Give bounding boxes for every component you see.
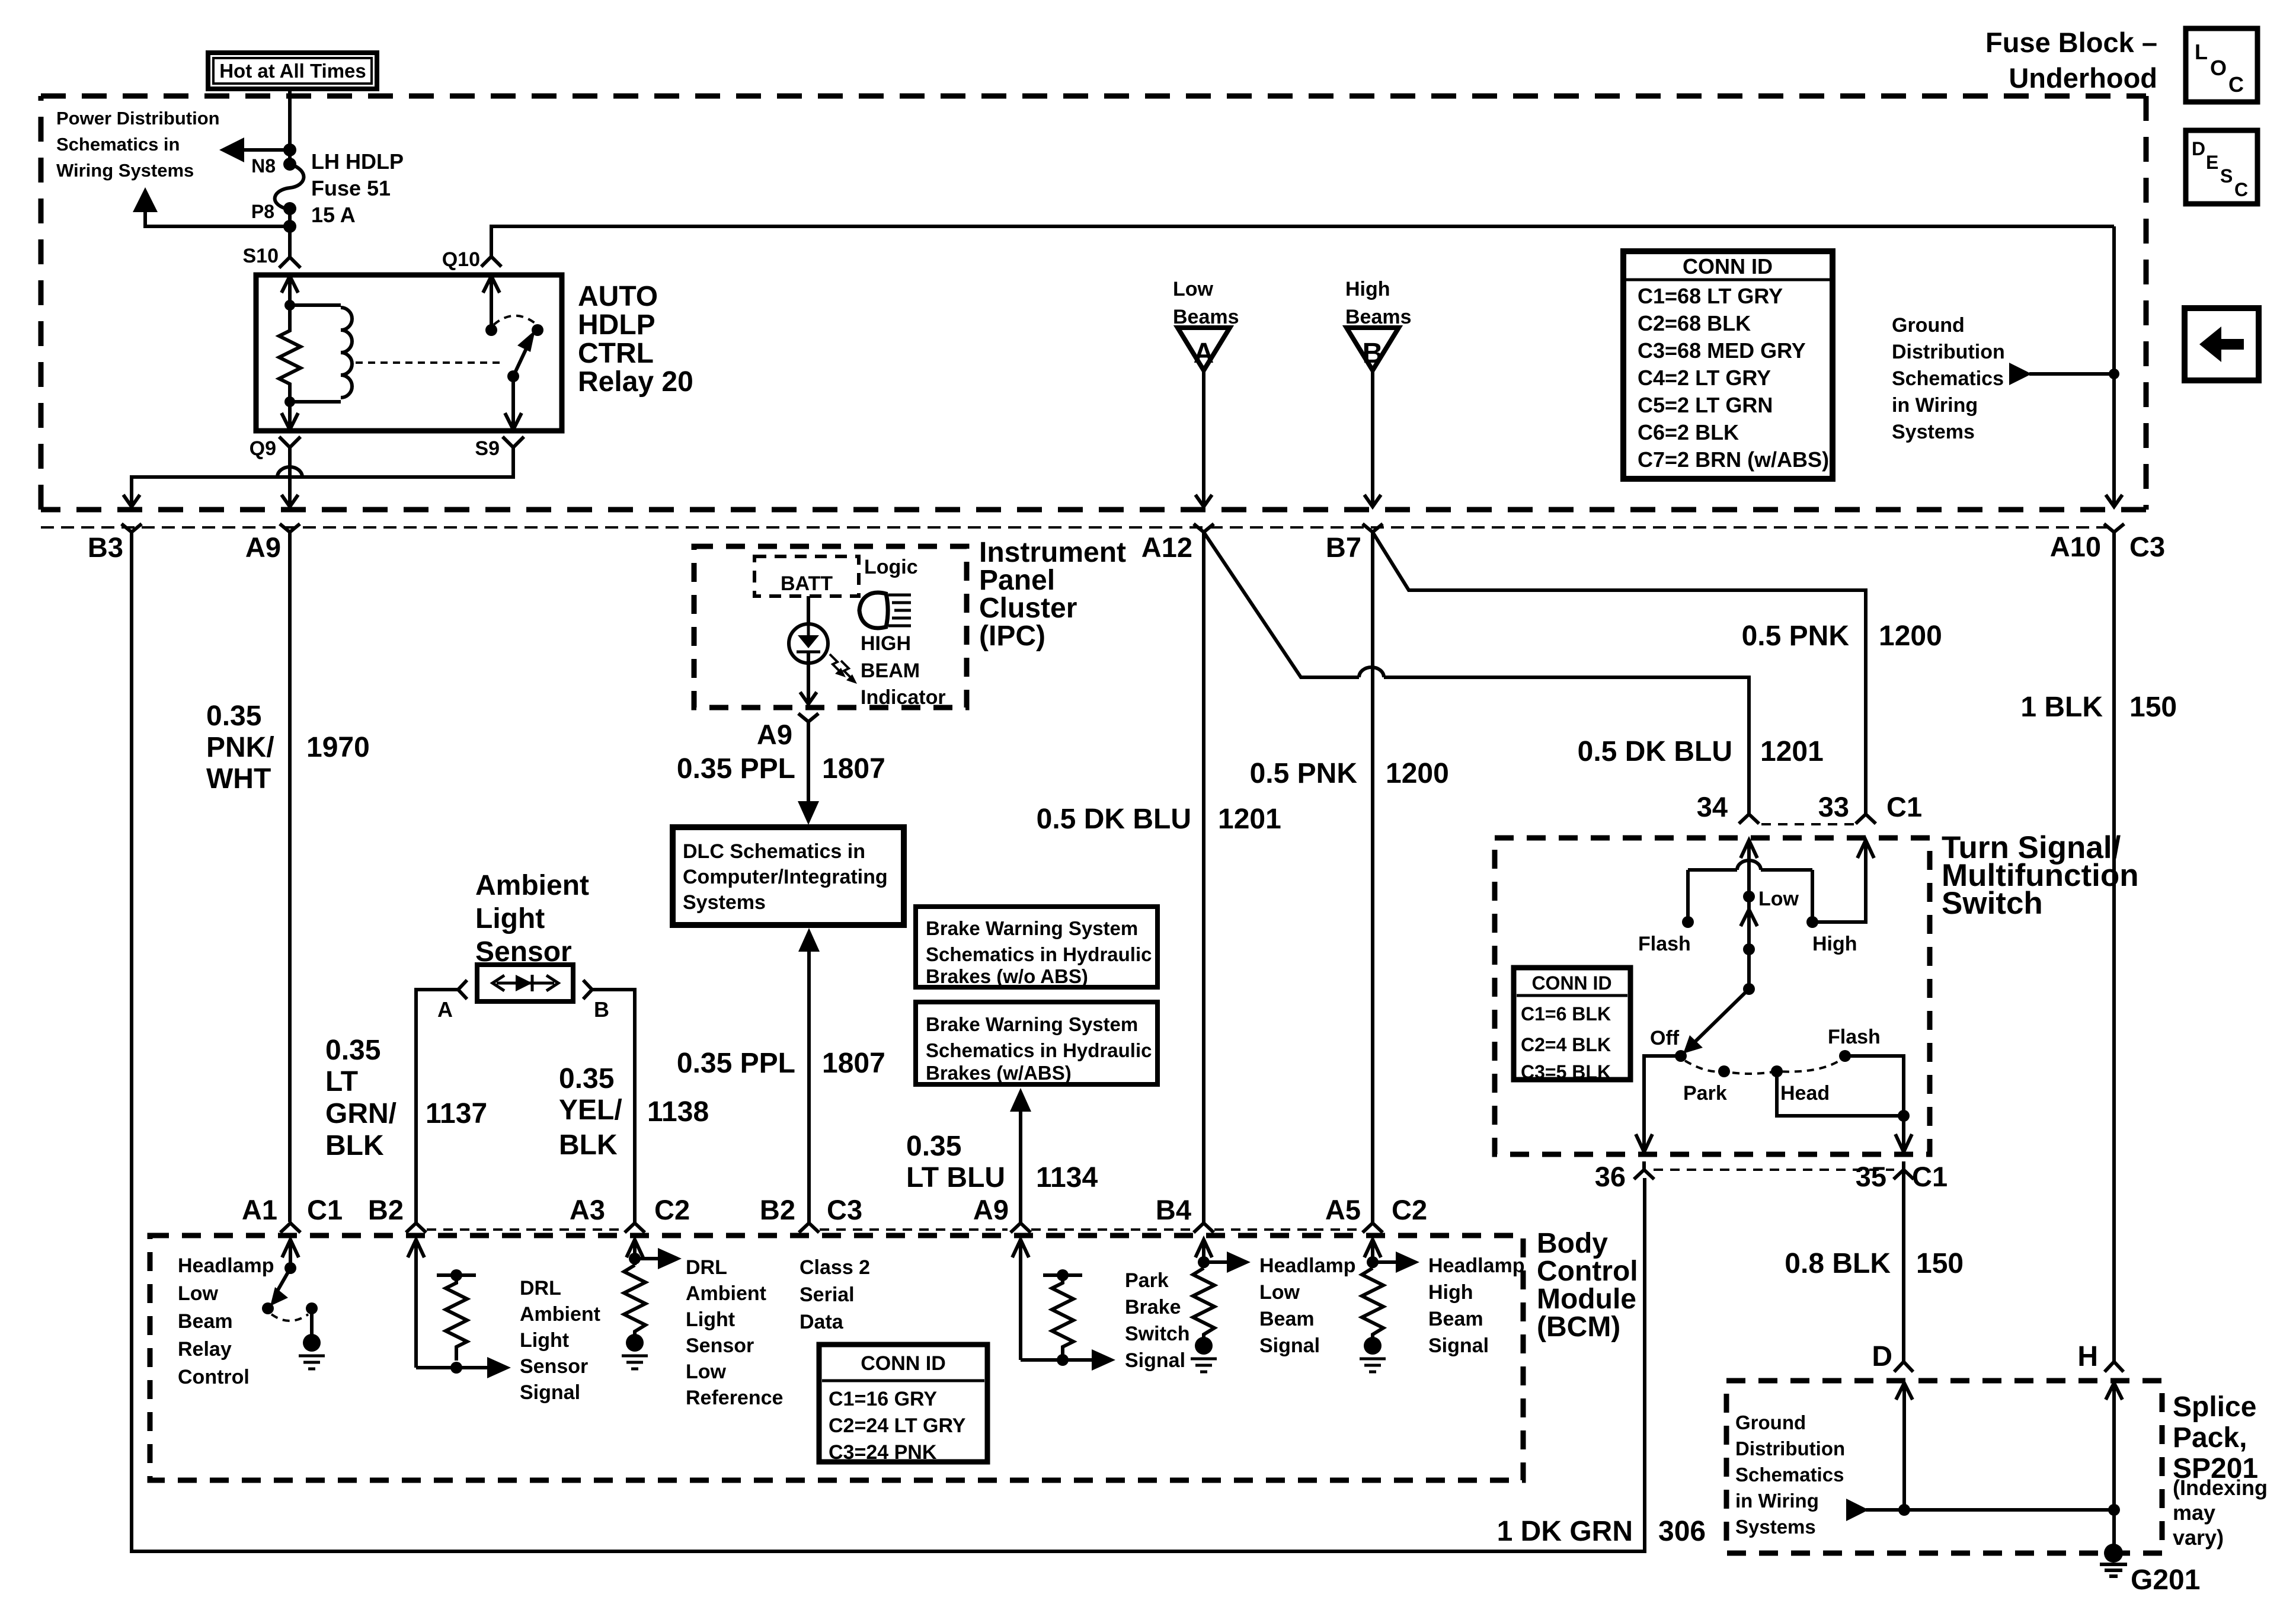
- wire High to pin 33: [1812, 840, 1874, 922]
- switch common wire with arrow up: [1741, 897, 1757, 989]
- svg-text:A5: A5: [1325, 1194, 1361, 1225]
- svg-text:in Wiring: in Wiring: [1735, 1490, 1819, 1512]
- svg-text:1200: 1200: [1386, 758, 1449, 789]
- svg-text:DLC Schematics in: DLC Schematics in: [683, 840, 865, 863]
- label Fuse Block - Underhood: [1985, 27, 2157, 94]
- svg-text:D: D: [2192, 138, 2205, 159]
- svg-text:Cluster: Cluster: [979, 593, 1077, 624]
- svg-text:Ground: Ground: [1892, 314, 1965, 337]
- connector Q9 symbol: [279, 437, 300, 459]
- svg-text:High: High: [1345, 278, 1390, 300]
- svg-text:C1=68 LT GRY: C1=68 LT GRY: [1638, 284, 1783, 308]
- High Beams triangle B: [1347, 328, 1399, 370]
- Splice Pack SP201 dashed box: [1726, 1381, 2162, 1553]
- BCM A9 entry arrow: [1012, 1240, 1029, 1360]
- wire BATT to indicator LED: [807, 596, 810, 624]
- svg-text:0.5 DK BLU: 0.5 DK BLU: [1037, 804, 1191, 835]
- svg-text:Distribution: Distribution: [1735, 1438, 1845, 1459]
- wire 35 to splice pack D: [1902, 1170, 1905, 1362]
- fuse element LH HDLP Fuse 51 15A (wavy symbol): [275, 164, 304, 209]
- svg-text:33: 33: [1818, 791, 1849, 822]
- svg-text:Low: Low: [1758, 888, 1799, 910]
- junction node to power distribution arrow: [283, 143, 296, 156]
- Brake Warning System box (w/o ABS): [916, 907, 1157, 987]
- svg-text:C2=24 LT GRY: C2=24 LT GRY: [829, 1414, 966, 1437]
- svg-text:B2: B2: [368, 1194, 404, 1225]
- svg-text:Ambient: Ambient: [686, 1282, 766, 1305]
- headlamp low beam relay control switch node: [284, 1262, 296, 1274]
- label Splice Pack, SP201 (Indexing may vary): [2173, 1391, 2268, 1550]
- connector S10 symbol: [279, 235, 300, 268]
- wire Head down to junction: [1777, 1071, 1904, 1116]
- svg-text:Pack,: Pack,: [2173, 1422, 2247, 1454]
- svg-text:C2: C2: [654, 1194, 690, 1225]
- svg-text:C5=2 LT GRN: C5=2 LT GRN: [1638, 393, 1773, 417]
- svg-text:35: 35: [1856, 1161, 1886, 1192]
- svg-text:Headlamp: Headlamp: [1259, 1254, 1356, 1277]
- svg-text:Brakes (w/ABS): Brakes (w/ABS): [926, 1062, 1072, 1084]
- svg-text:(IPC): (IPC): [979, 620, 1045, 652]
- svg-text:36: 36: [1595, 1161, 1626, 1192]
- wire BCM A9 up to brake warning box with arrow: [1010, 1088, 1031, 1222]
- relay bottom junction node: [284, 396, 295, 407]
- svg-text:0.35: 0.35: [325, 1035, 380, 1066]
- connector pin 33: [1818, 791, 1922, 824]
- Ambient Light Sensor box: [477, 965, 573, 1001]
- svg-text:C3=68 MED GRY: C3=68 MED GRY: [1638, 338, 1806, 363]
- svg-text:Reference: Reference: [686, 1387, 783, 1409]
- connector pin 36: [1595, 1161, 1654, 1192]
- svg-text:Indicator: Indicator: [861, 686, 946, 709]
- svg-text:B7: B7: [1326, 532, 1361, 563]
- wire B2 to sensor signal arrow: [416, 1357, 511, 1378]
- wire splice to ground: [2112, 1510, 2116, 1545]
- svg-text:DRL: DRL: [520, 1277, 561, 1299]
- svg-text:Schematics in Hydraulic: Schematics in Hydraulic: [926, 1039, 1152, 1061]
- svg-text:Underhood: Underhood: [2009, 62, 2157, 94]
- Low contact: [1743, 888, 1799, 910]
- label 0.5 DK BLU 1201 (A12 branch): [1037, 804, 1281, 835]
- svg-text:A9: A9: [973, 1194, 1009, 1225]
- svg-text:BLK: BLK: [559, 1129, 618, 1161]
- svg-text:A: A: [1194, 338, 1214, 369]
- svg-text:Control: Control: [178, 1366, 250, 1388]
- svg-text:1201: 1201: [1218, 804, 1281, 835]
- svg-text:0.5 PNK: 0.5 PNK: [1742, 620, 1850, 652]
- CONN ID table (fuse block underhood): [1623, 251, 1833, 479]
- node N8: [283, 158, 296, 171]
- relay switch pivot: [507, 370, 519, 382]
- svg-text:Schematics: Schematics: [1735, 1464, 1844, 1486]
- svg-text:L: L: [2195, 40, 2208, 64]
- label Headlamp Low Beam Relay Control: [178, 1254, 274, 1388]
- ground G201: [2100, 1544, 2200, 1596]
- svg-text:1134: 1134: [1036, 1162, 1098, 1193]
- wire A9 to park brake signal arrow: [1021, 1349, 1115, 1371]
- BCM A1 entry arrow: [282, 1240, 299, 1268]
- svg-text:Brake Warning System: Brake Warning System: [926, 917, 1138, 939]
- svg-text:Beam: Beam: [1428, 1308, 1483, 1330]
- splice D entry arrow: [1896, 1383, 1913, 1510]
- arrow at fuse block exit (A12): [1195, 495, 1212, 507]
- svg-text:H: H: [2077, 1341, 2098, 1372]
- relay switch fixed contact: [485, 324, 497, 336]
- svg-text:Park: Park: [1683, 1082, 1727, 1105]
- battery feed wire from Hot at All Times: [288, 89, 292, 164]
- switch pin 34 entry arrow: [1741, 840, 1757, 858]
- wire A10 down inside fuse block: [2112, 226, 2116, 504]
- svg-text:A3: A3: [570, 1194, 605, 1225]
- svg-text:(BCM): (BCM): [1537, 1311, 1620, 1343]
- wire B3 to bottom (1 DK GRN 306 path): [132, 532, 1645, 1551]
- svg-text:Flash: Flash: [1638, 933, 1691, 955]
- left-arrow navigation box: [2185, 308, 2259, 380]
- svg-text:High: High: [1812, 933, 1857, 955]
- label 0.5 PNK 1200 (B7 wire): [1250, 758, 1449, 789]
- label AUTO HDLP CTRL Relay 20: [578, 281, 693, 398]
- connector A12: [1141, 524, 1214, 563]
- svg-text:Beam: Beam: [1259, 1308, 1315, 1330]
- connector pin 34: [1697, 791, 1759, 824]
- svg-text:Control: Control: [1537, 1256, 1638, 1287]
- label 0.35 PPL 1807 (lower): [677, 1048, 885, 1079]
- svg-text:(Indexing: (Indexing: [2173, 1475, 2268, 1500]
- svg-text:Park: Park: [1125, 1269, 1169, 1292]
- relay top junction node: [284, 300, 295, 311]
- relay coil output with arrow to Q9: [282, 402, 298, 430]
- svg-text:D: D: [1872, 1341, 1892, 1372]
- Ambient Light Sensor label: [475, 870, 589, 968]
- svg-text:C1=16 GRY: C1=16 GRY: [829, 1388, 937, 1410]
- svg-text:A1: A1: [242, 1194, 277, 1225]
- node P8: [283, 202, 296, 215]
- svg-text:C2=68 BLK: C2=68 BLK: [1638, 311, 1751, 335]
- svg-text:1 BLK: 1 BLK: [2020, 692, 2103, 723]
- label 0.8 BLK 150: [1785, 1248, 1964, 1279]
- Low Beams triangle A: [1178, 328, 1230, 370]
- BATT dashed box: [754, 556, 859, 596]
- svg-text:Fuse 51: Fuse 51: [311, 176, 391, 200]
- dimmer switch pivot node: [1743, 983, 1755, 995]
- LOC reference box: [2186, 28, 2257, 102]
- svg-text:Low: Low: [686, 1361, 727, 1383]
- ambient sensor terminal A: [437, 980, 467, 1022]
- connector pin 35: [1856, 1161, 1948, 1192]
- svg-text:Class 2: Class 2: [800, 1256, 870, 1279]
- relay coil: [290, 305, 352, 402]
- wire Off to pin 36: [1636, 1056, 1681, 1152]
- svg-text:PNK/: PNK/: [206, 732, 274, 763]
- svg-text:CONN ID: CONN ID: [1683, 254, 1773, 279]
- svg-text:BATT: BATT: [781, 572, 833, 595]
- svg-text:Signal: Signal: [520, 1381, 580, 1404]
- wire A12 down to BCM B4: [1202, 532, 1205, 1222]
- connector A9 (park brake): [973, 1194, 1031, 1233]
- svg-text:B: B: [594, 997, 609, 1022]
- svg-text:E: E: [2206, 152, 2218, 173]
- svg-text:Systems: Systems: [1892, 421, 1975, 443]
- svg-text:Computer/Integrating: Computer/Integrating: [683, 866, 888, 888]
- svg-text:Head: Head: [1780, 1082, 1830, 1105]
- svg-text:0.35 PPL: 0.35 PPL: [677, 1048, 795, 1079]
- connector B7: [1326, 524, 1383, 563]
- svg-text:Q9: Q9: [250, 437, 276, 460]
- BCM B2 entry arrow: [408, 1240, 424, 1368]
- BCM A3 entry arrow: [626, 1240, 643, 1265]
- svg-text:1807: 1807: [822, 753, 885, 785]
- svg-text:C: C: [2234, 179, 2248, 200]
- svg-text:CTRL: CTRL: [578, 338, 654, 369]
- connector A1 / C1: [242, 1194, 343, 1233]
- wire IPC A9 to DLC with arrow: [798, 722, 819, 825]
- svg-text:O: O: [2210, 56, 2227, 80]
- relay control switch arm with arrow: [270, 1268, 290, 1306]
- svg-text:1807: 1807: [822, 1048, 885, 1079]
- LED light rays (lightning arrows): [830, 654, 857, 684]
- label Headlamp Low Beam Signal: [1259, 1254, 1356, 1357]
- svg-text:0.5 DK BLU: 0.5 DK BLU: [1578, 736, 1732, 767]
- hop of S9 wire over Q9 wire: [277, 467, 302, 477]
- relay control switch common contact: [306, 1302, 318, 1314]
- label Body Control Module (BCM): [1537, 1228, 1638, 1343]
- relay coil branch pin arrow (S10 side): [282, 275, 298, 305]
- svg-text:Instrument: Instrument: [979, 537, 1126, 568]
- svg-text:Beam: Beam: [178, 1310, 233, 1333]
- internal ground (high beam signal): [1360, 1337, 1386, 1372]
- svg-text:C6=2 BLK: C6=2 BLK: [1638, 420, 1739, 444]
- connector B4: [1156, 1194, 1214, 1233]
- Low Beams label: [1173, 278, 1239, 328]
- arrow high beam signal right: [1373, 1251, 1419, 1273]
- connector Q10 symbol: [481, 257, 501, 267]
- wire LED to IPC boundary arrow: [800, 663, 817, 704]
- svg-text:C7=2 BRN (w/ABS): C7=2 BRN (w/ABS): [1638, 447, 1829, 472]
- connector C1 dashed link 34-33: [1761, 823, 1854, 825]
- wire P8 to S10: [288, 209, 292, 257]
- Hot at All Times box: [208, 53, 377, 89]
- connector C2 dashed link B2-A3: [427, 1228, 622, 1231]
- arrow low beam signal right: [1204, 1251, 1251, 1273]
- svg-text:15 A: 15 A: [311, 203, 356, 227]
- svg-text:A9: A9: [245, 532, 281, 563]
- label Park Brake Switch Signal: [1125, 1269, 1190, 1372]
- svg-text:S: S: [2220, 165, 2233, 187]
- label LH HDLP Fuse 51 15 A: [311, 149, 404, 227]
- junction node on A10 wire: [2109, 369, 2119, 379]
- Flash contact (headlamp side): [1638, 916, 1694, 955]
- internal ground (low beam signal): [1191, 1337, 1217, 1372]
- svg-text:P8: P8: [251, 201, 274, 222]
- wire junction to pin 35: [1895, 1116, 1912, 1152]
- svg-text:Systems: Systems: [683, 891, 766, 914]
- svg-text:YEL/: YEL/: [559, 1094, 622, 1126]
- relay resistor: [279, 305, 300, 402]
- label 0.5 PNK 1200 (switch 33 wire): [1742, 620, 1942, 652]
- svg-text:Body: Body: [1537, 1228, 1608, 1259]
- headlamp switch dashed arc Off-Park-Head-Flash: [1685, 1060, 1841, 1074]
- svg-text:A: A: [437, 997, 453, 1022]
- High contact: [1806, 916, 1857, 955]
- wire contact to internal ground: [310, 1308, 314, 1334]
- IPC instrument panel cluster dashed box: [694, 546, 967, 708]
- svg-text:Ambient: Ambient: [475, 870, 589, 901]
- connector A9 (IPC): [757, 713, 818, 750]
- svg-text:0.35: 0.35: [906, 1131, 961, 1162]
- wire to up-arrow (power distribution): [145, 196, 290, 226]
- svg-text:34: 34: [1697, 791, 1728, 822]
- svg-text:Wiring Systems: Wiring Systems: [56, 160, 194, 181]
- wire ambient A to BCM B2: [416, 990, 458, 1222]
- svg-text:vary): vary): [2173, 1525, 2224, 1550]
- relay control switch dashed arc: [271, 1314, 308, 1321]
- svg-text:C1=6 BLK: C1=6 BLK: [1521, 1003, 1611, 1025]
- connector B2 / C3 (serial data): [760, 1194, 862, 1233]
- relay AUTO HDLP CTRL Relay 20 box: [256, 275, 562, 431]
- svg-text:BLK: BLK: [325, 1130, 384, 1161]
- label 0.35 LT BLU 1134: [906, 1131, 1098, 1193]
- svg-text:C4=2 LT GRY: C4=2 LT GRY: [1638, 366, 1771, 390]
- fuse block underhood dashed boundary box: [41, 96, 2146, 510]
- Brake Warning System box (w/ABS): [916, 1002, 1157, 1084]
- svg-text:Switch: Switch: [1125, 1323, 1190, 1345]
- label DRL Ambient Light Sensor Signal: [520, 1277, 600, 1404]
- relay actuation dashed link: [356, 361, 504, 364]
- svg-text:C2: C2: [1392, 1194, 1427, 1225]
- wire Flash right to junction: [1845, 1056, 1904, 1116]
- label Ground Distribution Schematics in Wiring Systems (fuse block): [1892, 314, 2005, 443]
- BCM body control module dashed box: [150, 1235, 1523, 1480]
- label Turn Signal/Multifunction Switch: [1942, 830, 2139, 921]
- svg-text:A9: A9: [757, 719, 792, 750]
- svg-text:LH HDLP: LH HDLP: [311, 149, 404, 174]
- svg-text:Relay 20: Relay 20: [578, 366, 693, 398]
- svg-text:Brakes (w/o ABS): Brakes (w/o ABS): [926, 965, 1088, 987]
- CONN ID table (switch): [1514, 968, 1630, 1083]
- svg-text:Systems: Systems: [1735, 1516, 1816, 1538]
- svg-text:C3: C3: [2129, 531, 2165, 562]
- svg-text:C3: C3: [827, 1194, 862, 1225]
- svg-text:Sensor: Sensor: [520, 1355, 588, 1378]
- wire 34 down to Low contact: [1747, 856, 1751, 897]
- label 0.35 YEL/BLK 1138: [559, 1063, 709, 1161]
- label DRL Ambient Light Sensor Low Reference: [686, 1256, 783, 1409]
- BCM B4 entry arrow: [1195, 1240, 1212, 1268]
- relay control switch open contact: [262, 1302, 274, 1314]
- svg-text:C1: C1: [307, 1194, 343, 1225]
- Flash contact (right): [1828, 1026, 1881, 1062]
- svg-text:Off: Off: [1650, 1027, 1680, 1049]
- splice bus node H: [2108, 1504, 2120, 1516]
- svg-text:Brake Warning System: Brake Warning System: [926, 1013, 1138, 1035]
- svg-text:C1: C1: [1886, 791, 1922, 822]
- connector S9 symbol: [503, 437, 524, 459]
- svg-text:HIGH: HIGH: [861, 632, 911, 655]
- label 0.5 DK BLU 1201 (switch 34 wire): [1578, 736, 1824, 767]
- svg-text:B2: B2: [760, 1194, 795, 1225]
- svg-text:C3=5 BLK: C3=5 BLK: [1521, 1061, 1611, 1083]
- BCM A5 entry arrow: [1364, 1240, 1381, 1268]
- splice bus tap arrow: [1846, 1499, 2114, 1521]
- svg-text:HDLP: HDLP: [578, 309, 655, 341]
- svg-text:Low: Low: [178, 1282, 219, 1305]
- headlamp high beam icon: [859, 593, 911, 628]
- svg-text:High: High: [1428, 1281, 1473, 1304]
- headlamp low beam signal resistor: [1193, 1268, 1214, 1337]
- dimmer switch arm with arrow to Off: [1683, 989, 1749, 1054]
- wire A10 down to splice pack H: [2112, 532, 2116, 1362]
- svg-text:Q10: Q10: [442, 248, 480, 271]
- svg-text:Data: Data: [800, 1311, 844, 1333]
- svg-text:Brake: Brake: [1125, 1296, 1181, 1318]
- svg-text:Panel: Panel: [979, 565, 1055, 596]
- svg-text:Beams: Beams: [1345, 306, 1412, 328]
- label 1 BLK 150: [2020, 692, 2177, 723]
- svg-text:G201: G201: [2131, 1564, 2200, 1596]
- svg-text:Ground: Ground: [1735, 1411, 1806, 1433]
- splice H entry arrow: [2106, 1383, 2122, 1510]
- splice bus node D: [1898, 1504, 1910, 1516]
- internal ground (relay control): [299, 1334, 325, 1369]
- label Headlamp High Beam Signal: [1428, 1254, 1525, 1357]
- svg-text:BEAM: BEAM: [861, 660, 920, 682]
- svg-text:S9: S9: [475, 437, 500, 460]
- connector A3 / C2: [570, 1194, 690, 1233]
- harness connector row dashed line: [41, 526, 2116, 529]
- CONN ID table (BCM): [819, 1345, 987, 1464]
- svg-text:Low: Low: [1173, 278, 1214, 300]
- svg-text:0.35: 0.35: [206, 700, 261, 732]
- connector A10 / C3: [2050, 524, 2165, 562]
- svg-text:B3: B3: [88, 532, 123, 563]
- DRL low reference resistor: [624, 1265, 645, 1334]
- B4 junction node: [1198, 1256, 1210, 1268]
- svg-text:150: 150: [1916, 1248, 1964, 1279]
- svg-text:Hot at All Times: Hot at All Times: [219, 60, 366, 82]
- relay switch open contact: [532, 324, 543, 336]
- svg-text:0.35 PPL: 0.35 PPL: [677, 753, 795, 785]
- svg-text:1200: 1200: [1879, 620, 1942, 652]
- connector B2 (ambient signal): [368, 1194, 426, 1233]
- label 0.35 PPL 1807 (upper): [677, 753, 885, 785]
- svg-text:Switch: Switch: [1942, 886, 2043, 921]
- svg-text:Distribution: Distribution: [1892, 341, 2005, 363]
- connector C1 dashed link 36-35: [1654, 1169, 1894, 1171]
- svg-text:LT: LT: [325, 1066, 358, 1097]
- arrow power distribution left: [219, 137, 244, 162]
- headlamp high beam signal resistor: [1362, 1268, 1383, 1337]
- svg-text:Beams: Beams: [1173, 306, 1239, 328]
- svg-text:1201: 1201: [1760, 736, 1824, 767]
- svg-text:0.8 BLK: 0.8 BLK: [1785, 1248, 1891, 1279]
- svg-text:S10: S10: [243, 245, 279, 267]
- junction node Head/Flash: [1898, 1110, 1910, 1122]
- svg-text:Schematics: Schematics: [1892, 367, 2004, 390]
- relay switch output with arrow to S9: [505, 376, 522, 430]
- wire A12 branch to switch pin 34: [1204, 532, 1359, 677]
- wire ambient B to BCM A3: [592, 990, 635, 1222]
- wire Q10 up and right to A10 drop: [491, 226, 2114, 257]
- svg-text:C: C: [2228, 72, 2244, 97]
- high beam indicator LED: [789, 624, 828, 663]
- arrow power distribution up: [133, 187, 158, 212]
- connector D: [1872, 1341, 1913, 1372]
- svg-text:C2=4 BLK: C2=4 BLK: [1521, 1034, 1611, 1055]
- Park contact: [1683, 1065, 1730, 1105]
- svg-text:CONN ID: CONN ID: [1531, 972, 1611, 994]
- svg-text:Schematics in: Schematics in: [56, 134, 180, 155]
- arrow at fuse block exit (B3): [123, 495, 140, 507]
- wire BCM B2/C3 up to DLC with arrow: [798, 928, 820, 1222]
